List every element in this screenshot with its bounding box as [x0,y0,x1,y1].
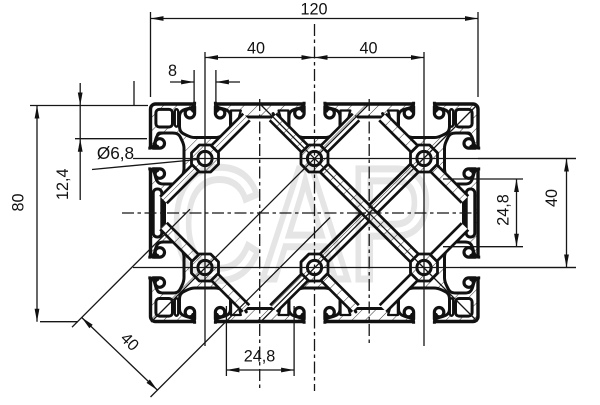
diagonal web [270,114,318,162]
face pocket [341,297,351,315]
T-slot left y=268 [148,242,184,293]
diagonal web [311,264,359,312]
face pocket [279,111,289,129]
profile outer contour [151,104,479,322]
svg-text:40: 40 [543,189,561,207]
svg-text:CAP: CAP [170,134,433,313]
T-slot bottom x=424 [399,288,450,324]
dim 24,8 right extension lines [443,178,523,180]
centerline bore row y=158.5 [133,158,576,160]
cavity north of X-brace [310,114,428,216]
cavity east of X-brace [367,154,467,271]
X-brace leg [311,155,429,272]
svg-text:80: 80 [10,193,28,211]
diagonal web [311,114,359,162]
corner pocket [450,109,453,127]
T-slot bottom x=205 [180,288,231,324]
core bore Ø6.8 at (205,268) [198,260,212,274]
boss octagon at (424,158) [411,145,438,172]
right face screw channel [466,189,475,237]
core bore Ø6.8 at (424,158) [417,151,431,165]
boss octagon at (205,268) [192,254,219,281]
dim 24,8 right [516,179,518,247]
cavity south of X-brace [310,211,428,312]
dim 120 extension lines [150,12,152,97]
corner pocket [457,133,471,145]
dim 12,4 extension lines [30,105,148,107]
core bore Ø6.8 at (314,268) [307,260,321,274]
boss octagon at (314,158) [301,145,328,172]
face pocket [231,111,241,129]
label diameter 6,8 with leader [92,160,198,170]
svg-text:40: 40 [359,40,377,58]
dim 40 diagonal extension lines [72,209,190,327]
core bore Ø6.8 at (205,158) [198,151,212,165]
T-slot bottom x=314 [289,288,340,324]
diagonal web [160,223,208,271]
diagonal centerline X-brace ascending [261,105,478,323]
corner pocket [175,298,178,316]
dim 80 [36,106,38,322]
diagonal web [380,264,428,312]
svg-text:120: 120 [300,1,327,19]
corner screw hole [156,109,173,127]
T-slot top x=314 [289,102,340,138]
centerline symmetry x=314.5 [314,24,316,391]
face pocket [388,297,398,315]
dim 120 [151,18,479,20]
centerline module boundary x=259.7 [259,99,261,388]
dim 40 right [315,57,425,59]
T-slot right y=158 [445,133,481,184]
X-brace leg [364,155,428,219]
diagonal web [202,264,250,312]
svg-text:24,8: 24,8 [244,348,276,366]
boss octagon at (314,268) [301,254,328,281]
diagonal web [421,155,469,203]
core bore Ø6.8 at (314,158) [307,151,321,165]
diagonal centerline lower-left to top junction [151,104,369,322]
watermark CAP [170,134,433,313]
dim 12,4 [79,83,81,106]
corner pocket [457,281,471,293]
core bore Ø6.8 at (424,268) [417,260,431,274]
corner pocket [157,281,171,293]
centerline slot column x=424 [423,52,425,346]
corner screw hole [156,299,173,317]
centerline module boundary x=369.2 [368,99,370,346]
diagonal centerline X-brace descending [260,104,478,322]
boss octagon at (205,158) [192,145,219,172]
corner pocket [157,133,171,145]
left face screw channel [153,189,162,237]
diagonal web [160,155,208,203]
diagonal web [270,264,318,312]
centerline horizontal symmetry y=213 [122,212,477,214]
centerline bore row y=267.5 [133,267,576,269]
diagonal web [379,114,427,162]
face pocket [279,297,289,315]
dim 40 diagonal [82,318,158,391]
svg-text:40: 40 [247,40,265,58]
T-slot right y=268 [445,242,481,293]
svg-text:Ø6,8: Ø6,8 [97,143,134,163]
corner screw hole [456,299,473,317]
face pocket [231,297,241,315]
dim 80 extension line bottom [40,321,78,323]
dim 40 left [205,57,315,59]
dim 40 right [566,159,568,268]
dim 40 right extension lines [478,158,576,160]
dim 24,8 bottom [226,369,294,371]
diagonal web [421,223,469,271]
diagonal web [202,114,250,162]
svg-text:8: 8 [168,62,177,80]
corner pocket [175,109,178,127]
X-brace leg [311,208,375,272]
T-slot left y=158 [148,133,184,184]
T-slot top x=424 [399,102,450,138]
central cavity left [162,114,369,312]
face pocket [341,111,351,129]
boss octagon at (424,268) [411,254,438,281]
dim 24,8 bottom extension lines [225,306,227,376]
face pocket [388,111,398,129]
corner screw hole [456,109,473,127]
corner pocket [450,298,453,316]
T-slot top x=205 [180,102,231,138]
dim 8 [170,81,194,83]
centerline slot column x=205 [204,52,206,346]
svg-text:24,8: 24,8 [495,194,513,226]
dim 8 extension lines [193,70,195,107]
svg-text:12,4: 12,4 [54,168,72,200]
